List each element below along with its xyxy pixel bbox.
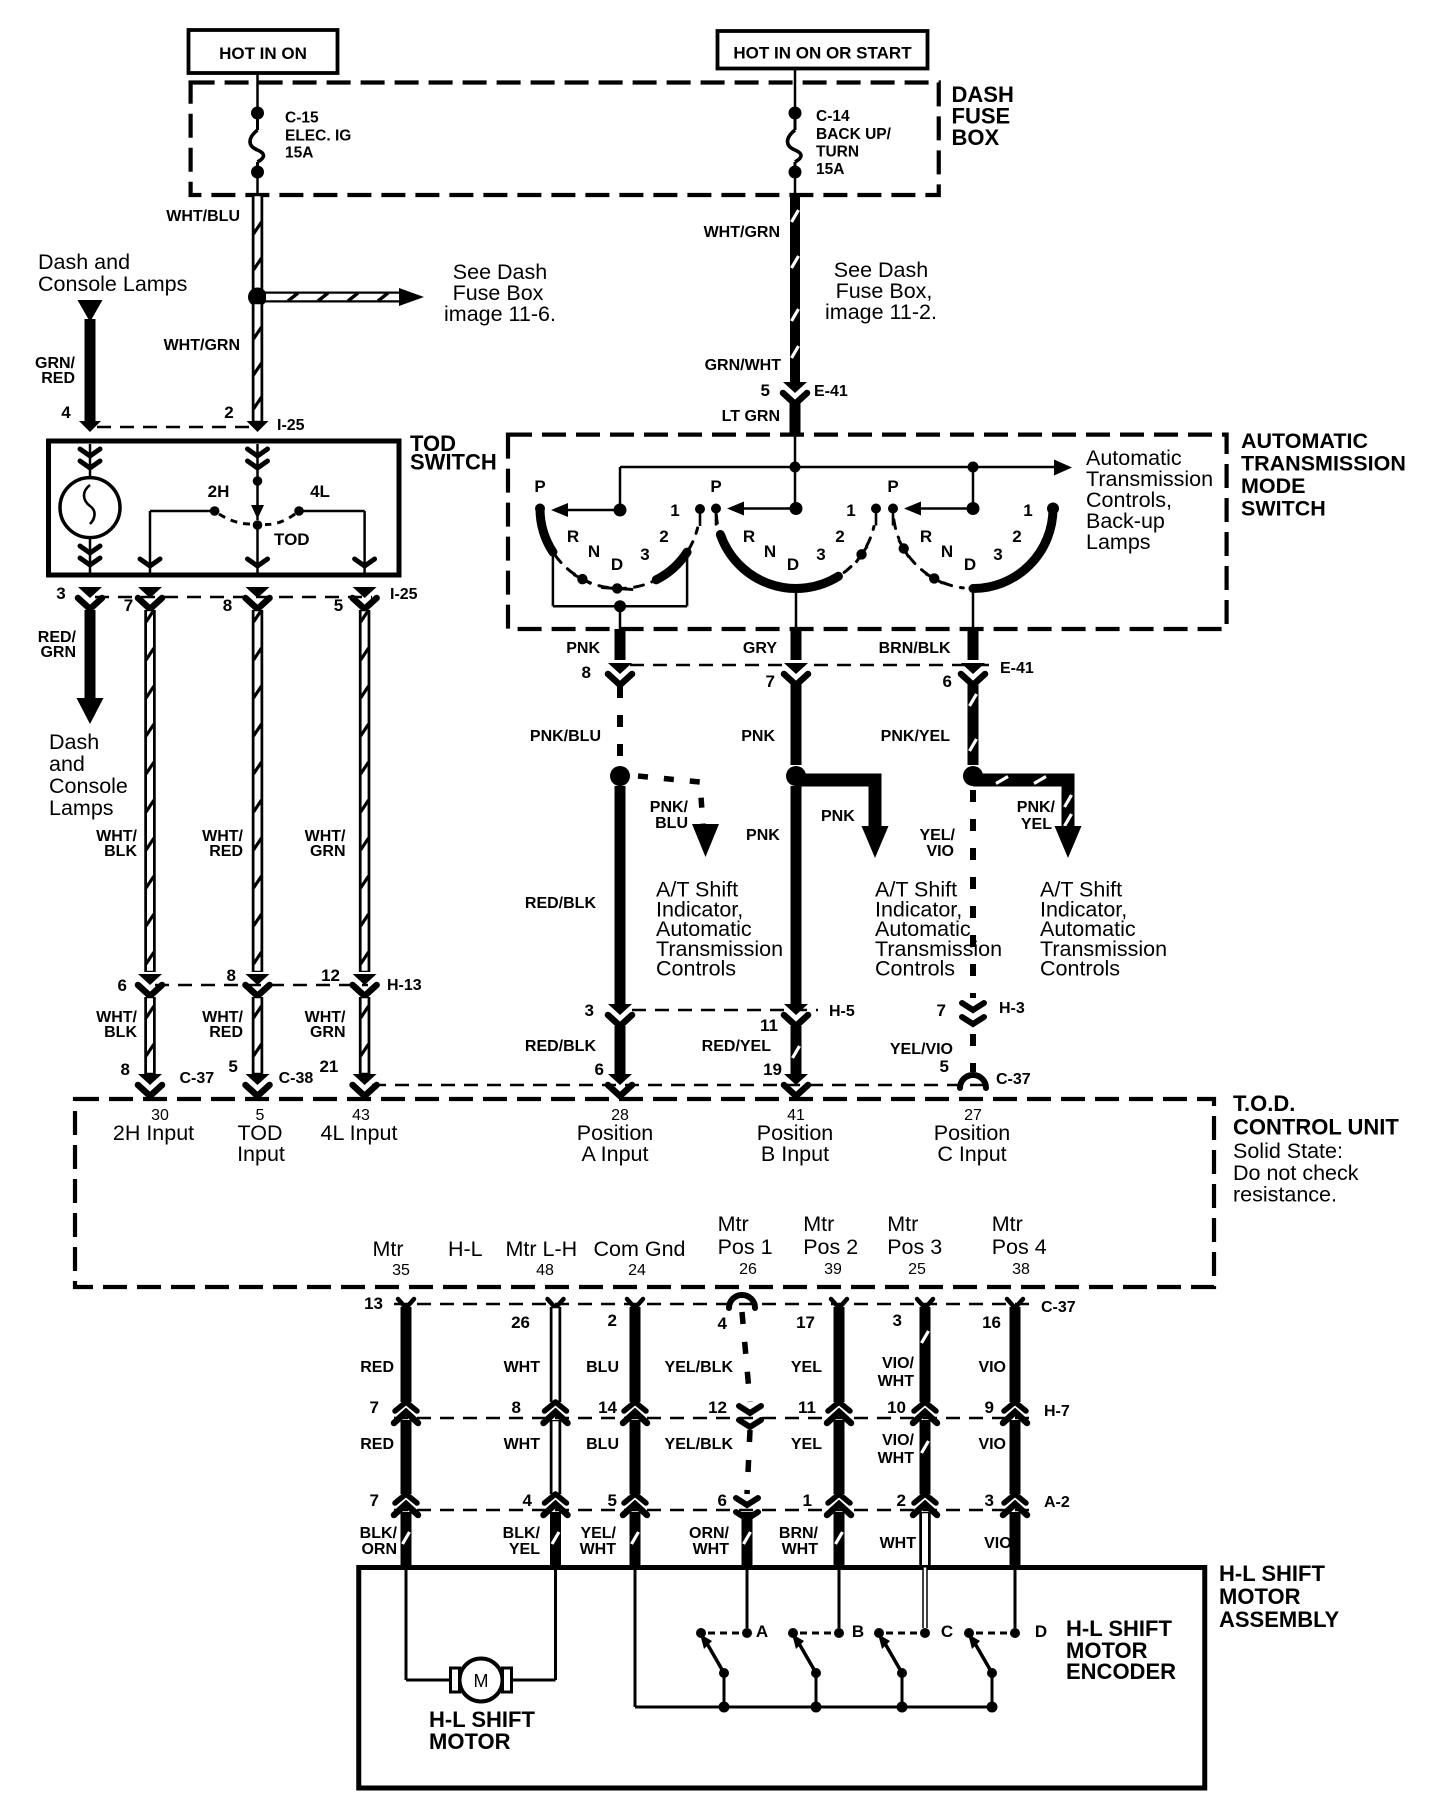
svg-text:Dash: Dash bbox=[49, 730, 99, 754]
svg-text:15A: 15A bbox=[285, 145, 313, 162]
svg-text:A: A bbox=[756, 1622, 768, 1641]
svg-text:YEL/BLK: YEL/BLK bbox=[665, 1436, 734, 1453]
svg-text:H-13: H-13 bbox=[387, 977, 422, 994]
svg-text:PNK: PNK bbox=[746, 827, 780, 844]
svg-text:Console: Console bbox=[49, 774, 128, 798]
svg-text:PNK/: PNK/ bbox=[650, 799, 689, 816]
svg-text:5: 5 bbox=[608, 1491, 617, 1510]
svg-text:TURN: TURN bbox=[816, 144, 859, 161]
svg-text:35: 35 bbox=[392, 1262, 410, 1279]
svg-text:RED/BLK: RED/BLK bbox=[525, 895, 597, 912]
svg-text:Lamps: Lamps bbox=[1086, 530, 1151, 554]
svg-text:39: 39 bbox=[824, 1261, 842, 1278]
svg-text:7: 7 bbox=[766, 672, 775, 691]
svg-text:image 11-6.: image 11-6. bbox=[444, 302, 556, 326]
svg-text:6: 6 bbox=[595, 1060, 604, 1079]
svg-text:RED/BLK: RED/BLK bbox=[525, 1038, 597, 1055]
svg-text:BLK: BLK bbox=[104, 843, 137, 860]
svg-text:P: P bbox=[887, 477, 898, 496]
svg-text:TRANSMISSION: TRANSMISSION bbox=[1241, 452, 1406, 476]
svg-text:RED: RED bbox=[209, 843, 243, 860]
svg-text:7: 7 bbox=[370, 1491, 379, 1510]
svg-text:12: 12 bbox=[708, 1398, 727, 1417]
svg-text:3: 3 bbox=[993, 545, 1002, 564]
svg-text:2: 2 bbox=[897, 1491, 906, 1510]
svg-text:7: 7 bbox=[124, 596, 133, 615]
svg-text:PNK: PNK bbox=[821, 808, 855, 825]
svg-text:ORN/: ORN/ bbox=[689, 1525, 730, 1542]
svg-text:N: N bbox=[588, 542, 600, 561]
svg-text:Controls: Controls bbox=[656, 957, 736, 981]
svg-text:5: 5 bbox=[334, 596, 343, 615]
svg-text:8: 8 bbox=[227, 966, 236, 985]
svg-text:4: 4 bbox=[523, 1491, 533, 1510]
svg-text:Pos 1: Pos 1 bbox=[718, 1235, 773, 1259]
svg-text:9: 9 bbox=[985, 1398, 994, 1417]
svg-text:E-41: E-41 bbox=[1000, 660, 1034, 677]
svg-text:PNK: PNK bbox=[566, 640, 600, 657]
svg-text:4L: 4L bbox=[310, 482, 330, 501]
svg-text:2: 2 bbox=[835, 527, 844, 546]
svg-text:6: 6 bbox=[718, 1491, 727, 1510]
svg-text:7: 7 bbox=[370, 1398, 379, 1417]
svg-text:10: 10 bbox=[887, 1398, 906, 1417]
svg-text:BRN/: BRN/ bbox=[779, 1525, 819, 1542]
svg-text:16: 16 bbox=[982, 1313, 1001, 1332]
svg-text:4: 4 bbox=[718, 1314, 728, 1333]
svg-text:Mtr: Mtr bbox=[718, 1212, 749, 1236]
svg-text:I-25: I-25 bbox=[390, 586, 418, 603]
svg-text:3: 3 bbox=[816, 545, 825, 564]
svg-text:YEL/VIO: YEL/VIO bbox=[890, 1041, 953, 1058]
svg-text:C-15: C-15 bbox=[285, 110, 319, 127]
svg-text:1: 1 bbox=[670, 501, 679, 520]
svg-text:RED: RED bbox=[209, 1024, 243, 1041]
svg-text:BOX: BOX bbox=[952, 125, 1000, 150]
svg-text:Pos 4: Pos 4 bbox=[992, 1235, 1047, 1259]
svg-text:VIO: VIO bbox=[978, 1436, 1006, 1453]
svg-text:TOD: TOD bbox=[274, 530, 310, 549]
svg-text:C-37: C-37 bbox=[180, 1070, 215, 1087]
svg-text:38: 38 bbox=[1012, 1261, 1030, 1278]
svg-text:8: 8 bbox=[582, 663, 591, 682]
svg-text:4L Input: 4L Input bbox=[321, 1121, 398, 1145]
svg-text:CONTROL UNIT: CONTROL UNIT bbox=[1233, 1115, 1399, 1140]
svg-text:MOTOR: MOTOR bbox=[1219, 1584, 1301, 1609]
svg-text:ASSEMBLY: ASSEMBLY bbox=[1219, 1607, 1340, 1632]
svg-text:12: 12 bbox=[321, 966, 340, 985]
svg-text:H-7: H-7 bbox=[1044, 1403, 1070, 1420]
svg-text:YEL: YEL bbox=[791, 1359, 822, 1376]
svg-text:VIO/: VIO/ bbox=[882, 1355, 915, 1372]
svg-text:7: 7 bbox=[937, 1001, 946, 1020]
svg-text:BACK UP/: BACK UP/ bbox=[816, 126, 892, 143]
svg-text:GRN: GRN bbox=[40, 644, 76, 661]
svg-text:19: 19 bbox=[763, 1060, 782, 1079]
svg-text:P: P bbox=[534, 477, 545, 496]
svg-text:SWITCH: SWITCH bbox=[410, 450, 497, 475]
svg-text:24: 24 bbox=[628, 1262, 646, 1279]
svg-text:M: M bbox=[474, 1671, 489, 1691]
svg-text:Do not check: Do not check bbox=[1233, 1161, 1359, 1185]
svg-text:GRY: GRY bbox=[743, 640, 777, 657]
svg-text:PNK: PNK bbox=[741, 728, 775, 745]
svg-text:BLU: BLU bbox=[586, 1359, 619, 1376]
svg-text:2: 2 bbox=[608, 1311, 617, 1330]
svg-text:B: B bbox=[852, 1622, 864, 1641]
svg-text:21: 21 bbox=[319, 1057, 338, 1076]
svg-text:2: 2 bbox=[1012, 527, 1021, 546]
svg-text:3: 3 bbox=[640, 545, 649, 564]
svg-text:Controls: Controls bbox=[1040, 957, 1120, 981]
svg-text:H-L SHIFT: H-L SHIFT bbox=[1219, 1561, 1325, 1586]
svg-text:R: R bbox=[743, 527, 755, 546]
svg-text:2H Input: 2H Input bbox=[113, 1121, 194, 1145]
svg-text:WHT: WHT bbox=[880, 1535, 917, 1552]
svg-text:D: D bbox=[611, 555, 623, 574]
svg-text:1: 1 bbox=[1023, 501, 1032, 520]
svg-text:YEL: YEL bbox=[1021, 816, 1052, 833]
svg-text:Console Lamps: Console Lamps bbox=[38, 272, 187, 296]
svg-text:YEL/: YEL/ bbox=[919, 827, 955, 844]
svg-text:WHT: WHT bbox=[504, 1359, 541, 1376]
svg-text:6: 6 bbox=[118, 976, 127, 995]
svg-text:1: 1 bbox=[803, 1491, 812, 1510]
svg-text:ENCODER: ENCODER bbox=[1066, 1659, 1176, 1684]
svg-text:3: 3 bbox=[56, 584, 65, 603]
svg-text:HOT IN ON OR START: HOT IN ON OR START bbox=[733, 44, 912, 63]
svg-text:1: 1 bbox=[846, 501, 855, 520]
svg-text:YEL: YEL bbox=[791, 1436, 822, 1453]
svg-text:14: 14 bbox=[598, 1398, 617, 1417]
svg-text:Solid State:: Solid State: bbox=[1233, 1139, 1343, 1163]
svg-text:C-14: C-14 bbox=[816, 108, 850, 125]
svg-text:WHT/BLU: WHT/BLU bbox=[166, 208, 240, 225]
svg-text:LT GRN: LT GRN bbox=[722, 408, 780, 425]
svg-text:C Input: C Input bbox=[937, 1142, 1006, 1166]
svg-text:Lamps: Lamps bbox=[49, 796, 114, 820]
svg-text:C-37: C-37 bbox=[996, 1071, 1031, 1088]
svg-text:Mtr: Mtr bbox=[992, 1212, 1023, 1236]
svg-text:AUTOMATIC: AUTOMATIC bbox=[1241, 429, 1368, 453]
svg-text:Mtr: Mtr bbox=[373, 1237, 404, 1261]
svg-text:3: 3 bbox=[893, 1311, 902, 1330]
svg-text:BLK/: BLK/ bbox=[503, 1525, 541, 1542]
svg-text:5: 5 bbox=[940, 1057, 949, 1076]
svg-text:11: 11 bbox=[798, 1398, 816, 1417]
svg-text:Controls: Controls bbox=[875, 957, 955, 981]
svg-text:WHT: WHT bbox=[878, 1450, 915, 1467]
svg-text:A Input: A Input bbox=[582, 1142, 649, 1166]
svg-text:VIO/: VIO/ bbox=[882, 1432, 915, 1449]
svg-text:48: 48 bbox=[536, 1262, 554, 1279]
svg-text:PNK/YEL: PNK/YEL bbox=[881, 728, 951, 745]
svg-text:8: 8 bbox=[512, 1398, 521, 1417]
svg-text:image 11-2.: image 11-2. bbox=[825, 300, 937, 324]
svg-text:C-37: C-37 bbox=[1041, 1299, 1076, 1316]
svg-text:Pos 2: Pos 2 bbox=[803, 1235, 858, 1259]
svg-text:Dash and: Dash and bbox=[38, 250, 130, 274]
svg-text:R: R bbox=[567, 527, 579, 546]
svg-text:D: D bbox=[1035, 1622, 1047, 1641]
svg-text:H-L: H-L bbox=[448, 1237, 483, 1261]
svg-text:VIO: VIO bbox=[984, 1535, 1012, 1552]
svg-text:13: 13 bbox=[364, 1294, 383, 1313]
svg-text:B Input: B Input bbox=[761, 1142, 829, 1166]
svg-text:I-25: I-25 bbox=[277, 417, 305, 434]
svg-text:T.O.D.: T.O.D. bbox=[1233, 1091, 1295, 1116]
svg-text:SWITCH: SWITCH bbox=[1241, 496, 1326, 520]
svg-text:HOT IN ON: HOT IN ON bbox=[219, 44, 307, 63]
svg-text:GRN: GRN bbox=[310, 843, 346, 860]
svg-text:8: 8 bbox=[223, 596, 232, 615]
svg-text:26: 26 bbox=[739, 1261, 757, 1278]
svg-text:2: 2 bbox=[659, 527, 668, 546]
svg-text:2H: 2H bbox=[208, 482, 230, 501]
svg-text:WHT: WHT bbox=[782, 1541, 819, 1558]
svg-text:BLK: BLK bbox=[104, 1024, 137, 1041]
svg-text:Mtr: Mtr bbox=[887, 1212, 918, 1236]
svg-text:BRN/BLK: BRN/BLK bbox=[879, 640, 951, 657]
svg-text:resistance.: resistance. bbox=[1233, 1183, 1337, 1207]
svg-text:ELEC. IG: ELEC. IG bbox=[285, 128, 351, 145]
svg-text:15A: 15A bbox=[816, 161, 844, 178]
svg-text:BLU: BLU bbox=[586, 1436, 619, 1453]
svg-text:6: 6 bbox=[943, 672, 952, 691]
svg-text:RED: RED bbox=[360, 1359, 394, 1376]
svg-text:P: P bbox=[710, 477, 721, 496]
svg-text:RED/YEL: RED/YEL bbox=[702, 1038, 772, 1055]
svg-text:11: 11 bbox=[760, 1016, 778, 1035]
svg-text:H-3: H-3 bbox=[999, 1000, 1025, 1017]
svg-text:5: 5 bbox=[761, 381, 770, 400]
svg-text:WHT: WHT bbox=[504, 1436, 541, 1453]
svg-text:A-2: A-2 bbox=[1044, 1494, 1070, 1511]
svg-text:and: and bbox=[49, 752, 85, 776]
svg-text:VIO: VIO bbox=[926, 843, 954, 860]
svg-text:Pos 3: Pos 3 bbox=[887, 1235, 942, 1259]
svg-text:GRN: GRN bbox=[310, 1024, 346, 1041]
svg-text:WHT: WHT bbox=[878, 1373, 915, 1390]
svg-text:N: N bbox=[941, 542, 953, 561]
svg-text:E-41: E-41 bbox=[814, 383, 848, 400]
svg-text:5: 5 bbox=[228, 1057, 237, 1076]
svg-text:RED: RED bbox=[360, 1436, 394, 1453]
svg-text:YEL/: YEL/ bbox=[580, 1525, 616, 1542]
svg-text:MODE: MODE bbox=[1241, 474, 1306, 498]
svg-text:C-38: C-38 bbox=[279, 1070, 314, 1087]
svg-text:YEL/BLK: YEL/BLK bbox=[665, 1359, 734, 1376]
svg-text:WHT/GRN: WHT/GRN bbox=[164, 337, 240, 354]
svg-text:3: 3 bbox=[985, 1491, 994, 1510]
svg-text:2: 2 bbox=[224, 403, 233, 422]
svg-text:WHT/GRN: WHT/GRN bbox=[704, 224, 780, 241]
svg-text:GRN/WHT: GRN/WHT bbox=[705, 357, 782, 374]
svg-text:D: D bbox=[964, 555, 976, 574]
svg-text:PNK/BLU: PNK/BLU bbox=[530, 728, 601, 745]
svg-text:D: D bbox=[787, 555, 799, 574]
svg-text:C: C bbox=[941, 1622, 953, 1641]
svg-text:VIO: VIO bbox=[978, 1359, 1006, 1376]
svg-text:3: 3 bbox=[585, 1001, 594, 1020]
svg-text:YEL: YEL bbox=[509, 1541, 540, 1558]
svg-text:MOTOR: MOTOR bbox=[429, 1729, 511, 1754]
svg-text:RED: RED bbox=[41, 370, 75, 387]
svg-text:BLU: BLU bbox=[655, 815, 688, 832]
svg-text:PNK/: PNK/ bbox=[1017, 799, 1056, 816]
svg-text:8: 8 bbox=[121, 1060, 130, 1079]
svg-text:Mtr: Mtr bbox=[803, 1212, 834, 1236]
svg-text:WHT: WHT bbox=[580, 1541, 617, 1558]
svg-text:Mtr L-H: Mtr L-H bbox=[506, 1237, 578, 1261]
svg-text:4: 4 bbox=[61, 403, 71, 422]
svg-text:WHT: WHT bbox=[693, 1541, 730, 1558]
svg-text:25: 25 bbox=[908, 1261, 926, 1278]
svg-text:Com Gnd: Com Gnd bbox=[594, 1237, 686, 1261]
svg-text:H-5: H-5 bbox=[829, 1003, 855, 1020]
svg-text:N: N bbox=[764, 542, 776, 561]
svg-text:BLK/: BLK/ bbox=[360, 1525, 398, 1542]
svg-text:17: 17 bbox=[796, 1313, 815, 1332]
svg-text:R: R bbox=[920, 527, 932, 546]
svg-text:26: 26 bbox=[511, 1313, 530, 1332]
svg-text:ORN: ORN bbox=[361, 1541, 397, 1558]
svg-text:Input: Input bbox=[237, 1142, 285, 1166]
